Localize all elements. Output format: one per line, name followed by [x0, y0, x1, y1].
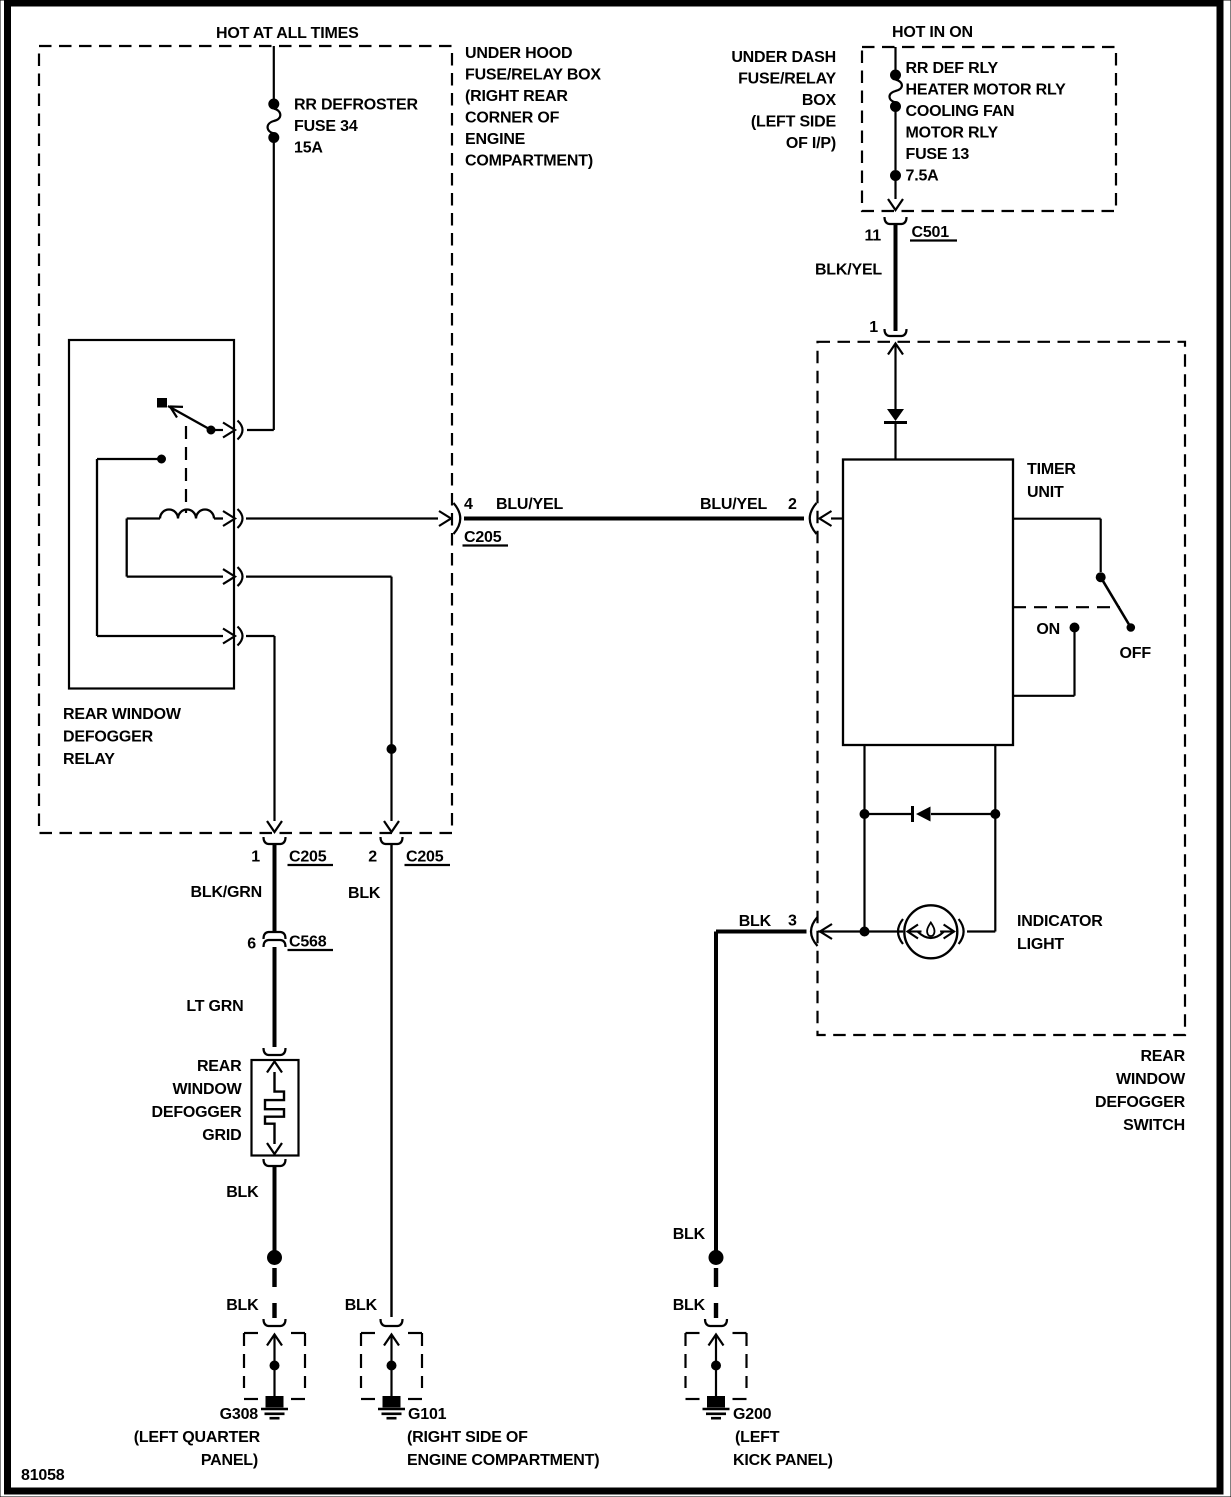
svg-text:ON: ON: [1036, 621, 1060, 638]
timer unit (outline): [843, 460, 1013, 746]
svg-text:RR DEFROSTER: RR DEFROSTER: [294, 97, 418, 114]
connector pin 2 at switch box: [810, 503, 832, 534]
wire: diode to timer unit: [894, 424, 896, 460]
wire: LT GRN segment: [273, 947, 277, 1047]
svg-text:(RIGHT SIDE OF: (RIGHT SIDE OF: [407, 1429, 528, 1446]
svg-text:OF I/P): OF I/P): [786, 135, 836, 152]
wire: hot feed into fuse 34: [273, 46, 275, 100]
wire: grid ground lead: [273, 1167, 277, 1252]
diode D1 (series): [884, 409, 907, 423]
svg-text:FUSE/RELAY BOX: FUSE/RELAY BOX: [465, 67, 601, 84]
junction dot (right, diode row): [991, 810, 1000, 819]
wire label LT GRN: [186, 998, 243, 1015]
note: under hood fuse/relay box location: [465, 45, 601, 170]
relay pin (row 1, contact out): [223, 421, 243, 440]
svg-text:C501: C501: [912, 224, 950, 241]
diagram number 81058: [21, 1467, 65, 1484]
svg-text:BLU/YEL: BLU/YEL: [496, 496, 563, 513]
wire: entry into switch box: [888, 344, 903, 410]
connector name C501: [910, 224, 957, 241]
indicator light bulb: [898, 905, 964, 958]
node label HOT AT ALL TIMES: [216, 25, 359, 42]
wire: timer to defogger switch common: [1013, 519, 1101, 572]
switch contact ON: [1070, 623, 1079, 632]
svg-text:HOT IN ON: HOT IN ON: [892, 24, 973, 41]
svg-text:C205: C205: [406, 849, 444, 866]
svg-text:COOLING FAN: COOLING FAN: [906, 103, 1015, 120]
svg-text:UNDER HOOD: UNDER HOOD: [465, 45, 572, 62]
wire: ON contact to timer: [1013, 631, 1075, 696]
wire: diode bypass row: [865, 813, 996, 815]
svg-text:(LEFT QUARTER: (LEFT QUARTER: [134, 1429, 261, 1446]
pin number 2 (timer input): [788, 496, 797, 513]
connector cup at G101: [381, 1319, 403, 1326]
connector C568 pin 6: [264, 932, 286, 947]
svg-text:WINDOW: WINDOW: [1116, 1071, 1186, 1088]
label: TIMER UNIT: [1027, 461, 1076, 501]
svg-text:G308: G308: [220, 1406, 259, 1423]
connector cup at G308: [264, 1319, 286, 1326]
wire label BLU/YEL (right): [700, 496, 767, 513]
wire: dashed BLK to G308: [272, 1268, 276, 1318]
svg-text:C568: C568: [289, 934, 327, 951]
connector C205 pin 4: [439, 503, 460, 534]
svg-text:FUSE 34: FUSE 34: [294, 118, 358, 135]
connector pin 3 at switch box: [811, 917, 832, 946]
pin number 4: [464, 496, 473, 513]
label: RR DEFROSTER FUSE 34 15A: [294, 97, 418, 157]
connector C205 pin 1 (box exit): [264, 821, 286, 844]
wire label BLK (below grid): [226, 1184, 259, 1201]
svg-text:6: 6: [247, 936, 256, 953]
svg-text:3: 3: [788, 913, 797, 930]
connector cup at G200: [705, 1319, 727, 1326]
connector C205 pin 2 (box exit): [381, 821, 403, 844]
pin number 3: [788, 913, 797, 930]
svg-text:BLK: BLK: [673, 1297, 706, 1314]
svg-text:SWITCH: SWITCH: [1123, 1117, 1185, 1134]
splice dot on row 3 wire: [387, 745, 396, 754]
svg-text:BOX: BOX: [802, 92, 837, 109]
relay coil: [127, 510, 223, 519]
svg-text:11: 11: [864, 228, 881, 245]
svg-text:INDICATOR: INDICATOR: [1017, 913, 1103, 930]
svg-text:1: 1: [251, 849, 260, 866]
label OFF: [1120, 645, 1152, 662]
svg-text:DEFOGGER: DEFOGGER: [152, 1104, 243, 1121]
node label HOT IN ON: [892, 24, 973, 41]
svg-text:BLU/YEL: BLU/YEL: [700, 496, 767, 513]
pin number 2 and name C205: [368, 849, 450, 866]
ground G308: [244, 1333, 305, 1418]
fuse F13: [889, 70, 901, 112]
svg-text:LIGHT: LIGHT: [1017, 936, 1064, 953]
pin number 11: [864, 228, 881, 245]
grid connector (top cup): [264, 1048, 286, 1055]
label G308 (LEFT QUARTER PANEL): [134, 1406, 261, 1469]
defogger switch blade: [1096, 573, 1134, 632]
svg-text:TIMER: TIMER: [1027, 461, 1076, 478]
wire label BLK (G101 lower): [345, 1297, 378, 1314]
svg-text:HOT AT ALL TIMES: HOT AT ALL TIMES: [216, 25, 359, 42]
svg-text:81058: 81058: [21, 1467, 65, 1484]
label: REAR WINDOW DEFOGGER SWITCH: [1095, 1048, 1186, 1134]
relay pin (row 2, coil): [223, 509, 243, 528]
relay: rear window defogger relay (outline): [69, 340, 234, 689]
svg-text:UNDER DASH: UNDER DASH: [731, 49, 836, 66]
svg-text:PANEL): PANEL): [201, 1452, 258, 1469]
svg-text:REAR: REAR: [1140, 1048, 1185, 1065]
label ON: [1036, 621, 1060, 638]
svg-text:BLK/YEL: BLK/YEL: [815, 262, 882, 279]
svg-text:BLK: BLK: [348, 885, 381, 902]
wire label BLK (G200 lower): [673, 1297, 706, 1314]
svg-text:15A: 15A: [294, 140, 323, 157]
svg-text:ENGINE: ENGINE: [465, 131, 526, 148]
svg-text:G200: G200: [733, 1406, 772, 1423]
svg-text:BLK/GRN: BLK/GRN: [191, 884, 262, 901]
svg-text:BLK: BLK: [345, 1297, 378, 1314]
wire: BLU/YEL heavy run: [464, 517, 804, 521]
rear window defogger grid element: [252, 1060, 299, 1156]
fuse F34: [268, 99, 281, 143]
svg-text:(LEFT SIDE: (LEFT SIDE: [751, 114, 837, 131]
wire label BLK/YEL: [815, 262, 882, 279]
under-hood fuse/relay box (dashed outline): [39, 46, 452, 833]
svg-text:DEFOGGER: DEFOGGER: [63, 729, 154, 746]
connector pin 1 at switch box: [885, 329, 907, 336]
wire label BLK (switch ground): [739, 913, 772, 930]
wire: hot in on feed: [894, 47, 896, 70]
relay internal wire: contact feed: [97, 455, 223, 636]
svg-text:(RIGHT REAR: (RIGHT REAR: [465, 88, 568, 105]
junction dot (indicator left): [860, 927, 869, 936]
relay pin (row 4): [223, 627, 243, 646]
pin number 6 and name C568: [247, 934, 333, 953]
ground G200: [686, 1333, 747, 1418]
label: INDICATOR LIGHT: [1017, 913, 1103, 953]
splice dot (switch ground): [709, 1251, 723, 1265]
label: REAR WINDOW DEFOGGER RELAY: [63, 706, 182, 768]
wire: relay coil to C205 pin 4: [246, 517, 438, 519]
wire into C501 with arrow: [888, 180, 903, 210]
wire: pin 2 to timer unit: [831, 517, 843, 519]
svg-text:RR DEF RLY: RR DEF RLY: [906, 60, 999, 77]
diode D2 (across indicator): [913, 806, 931, 822]
wire: BLK/YEL heavy run: [894, 224, 898, 331]
svg-text:REAR: REAR: [197, 1058, 242, 1075]
switch linkage (dashed): [1013, 606, 1120, 608]
wire: BLK/GRN segment: [273, 845, 277, 932]
svg-text:UNIT: UNIT: [1027, 484, 1064, 501]
rear window defogger switch box (dashed outline): [818, 342, 1186, 1035]
wire: BLK down to G101: [390, 845, 392, 1318]
relay mechanical linkage (dashed): [185, 426, 187, 513]
svg-text:2: 2: [368, 849, 377, 866]
pin number 1 and name C205: [251, 849, 333, 866]
wire: heavy BLK to G200: [716, 932, 807, 1252]
relay switch contact (movable blade): [158, 399, 224, 435]
svg-text:1: 1: [869, 319, 878, 336]
wire: indicator to pin 3: [818, 930, 903, 932]
svg-text:KICK PANEL): KICK PANEL): [733, 1452, 833, 1469]
svg-text:HEATER MOTOR RLY: HEATER MOTOR RLY: [906, 82, 1067, 99]
svg-text:DEFOGGER: DEFOGGER: [1095, 1094, 1186, 1111]
svg-text:BLK: BLK: [226, 1184, 259, 1201]
svg-text:WINDOW: WINDOW: [172, 1081, 242, 1098]
svg-text:C205: C205: [464, 529, 502, 546]
svg-text:RELAY: RELAY: [63, 751, 115, 768]
pin number 1 (switch box): [869, 319, 878, 336]
label G101 (RIGHT SIDE OF ENGINE COMPARTMENT): [407, 1406, 599, 1469]
label: REAR WINDOW DEFOGGER GRID: [152, 1058, 243, 1144]
wire label BLK (to G308): [226, 1297, 259, 1314]
relay internal wire: coil return: [127, 519, 223, 577]
connector C501: [885, 217, 907, 224]
relay pin (row 3): [223, 567, 243, 586]
svg-text:BLK: BLK: [673, 1226, 706, 1243]
wire: fuse 13 to C501: [894, 111, 896, 170]
wire: relay row 3 to C205 pin 2: [246, 577, 392, 821]
wire label BLK (G200 upper): [673, 1226, 706, 1243]
grid connector (bottom cup): [264, 1159, 286, 1166]
svg-text:2: 2: [788, 496, 797, 513]
wire: relay row 4 to C205 pin 1: [246, 636, 275, 821]
svg-text:G101: G101: [408, 1406, 447, 1423]
wire: dashed BLK to G200: [714, 1268, 718, 1318]
label: RR DEF RLY HEATER MOTOR RLY COOLING FAN MOTOR RLY FUSE 13 7.5A: [906, 60, 1067, 185]
svg-text:REAR WINDOW: REAR WINDOW: [63, 706, 182, 723]
junction dot (left, diode row): [860, 810, 869, 819]
wire label BLK (to G101): [348, 885, 381, 902]
svg-text:ENGINE COMPARTMENT): ENGINE COMPARTMENT): [407, 1452, 599, 1469]
splice dot at 7.5A: [891, 171, 901, 181]
svg-text:MOTOR RLY: MOTOR RLY: [906, 125, 999, 142]
wire: timer output left leg: [863, 745, 865, 932]
svg-text:LT GRN: LT GRN: [186, 998, 243, 1015]
svg-text:COMPARTMENT): COMPARTMENT): [465, 153, 593, 170]
svg-text:FUSE 13: FUSE 13: [906, 146, 970, 163]
wire: fuse 34 to relay contact: [247, 141, 274, 430]
svg-text:FUSE/RELAY: FUSE/RELAY: [738, 71, 836, 88]
svg-text:4: 4: [464, 496, 473, 513]
wire: timer output right leg: [967, 745, 995, 932]
connector name C205 (pin 4): [463, 529, 509, 546]
svg-text:CORNER OF: CORNER OF: [465, 110, 560, 127]
splice dot (grid ground): [268, 1251, 282, 1265]
svg-text:GRID: GRID: [202, 1127, 241, 1144]
wire label BLU/YEL (left): [496, 496, 563, 513]
svg-text:OFF: OFF: [1120, 645, 1152, 662]
svg-text:BLK: BLK: [226, 1297, 259, 1314]
wire label BLK/GRN: [191, 884, 262, 901]
svg-text:BLK: BLK: [739, 913, 772, 930]
label G200 (LEFT KICK PANEL): [733, 1406, 833, 1469]
under-dash fuse/relay box (dashed outline): [862, 47, 1116, 211]
svg-text:7.5A: 7.5A: [906, 168, 940, 185]
note: under dash fuse/relay box location: [731, 49, 836, 152]
ground G101: [361, 1333, 422, 1418]
svg-text:C205: C205: [289, 849, 327, 866]
svg-text:(LEFT: (LEFT: [735, 1429, 780, 1446]
